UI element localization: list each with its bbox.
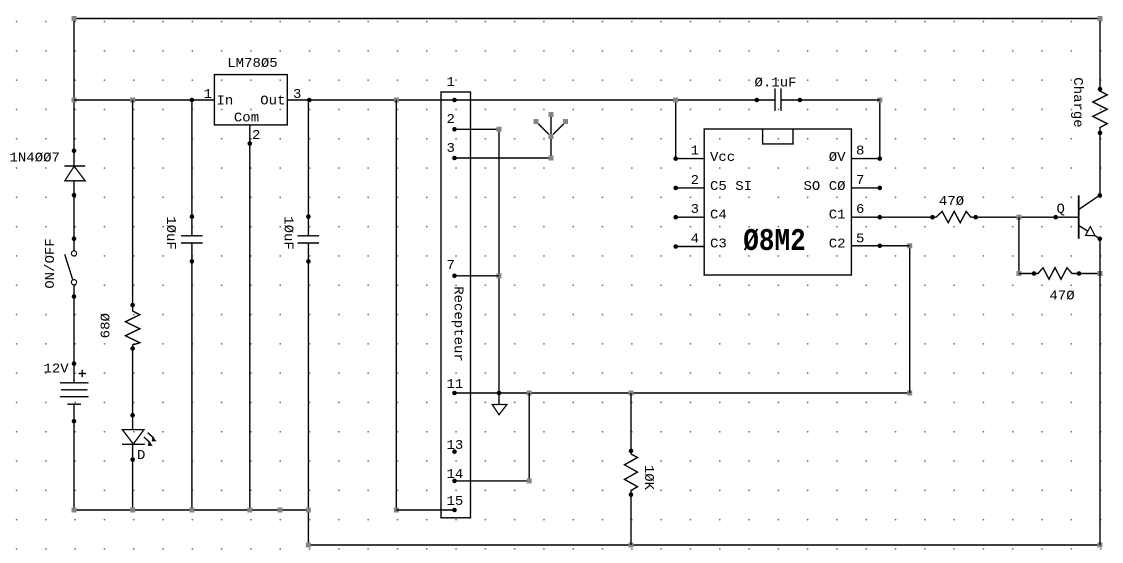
svg-text:4: 4 — [691, 232, 699, 248]
wire vertical 396 — [395, 100, 397, 510]
wire LM7805 com pin — [249, 125, 251, 510]
wire R2 to base — [976, 216, 1079, 218]
diode D1 1N4007 — [64, 149, 85, 198]
wire pin2 link — [455, 129, 500, 393]
chip pin 5 wire — [851, 245, 909, 247]
svg-text:C2: C2 — [829, 236, 846, 252]
pin 14 J1 — [452, 479, 457, 484]
transistor Q1 — [1079, 193, 1102, 241]
svg-text:6: 6 — [856, 202, 864, 218]
wire rail 5V from regulator — [287, 99, 775, 101]
wire 680 to LED — [132, 349, 134, 430]
node square 680 branch — [130, 98, 135, 103]
wire diode to switch — [73, 181, 75, 251]
svg-text:13: 13 — [447, 438, 464, 454]
svg-text:LM78Ø5: LM78Ø5 — [227, 56, 277, 72]
node rail2 right corner — [1098, 543, 1103, 548]
chip pin 4 stub — [676, 246, 705, 248]
pin 7 J1 — [452, 274, 457, 279]
node square left rail junction — [72, 98, 77, 103]
resistor R2 470 — [933, 211, 976, 222]
capacitor C2 10uF — [298, 214, 320, 263]
wire pin11 row — [455, 392, 910, 394]
battery B1 12V — [60, 361, 89, 423]
node pin2 corner — [497, 127, 502, 132]
arrow down — [498, 393, 500, 405]
wire battery to ground rail — [73, 404, 75, 510]
resistor R5 Charge — [1093, 91, 1107, 133]
svg-text:Ø8M2: Ø8M2 — [743, 224, 805, 260]
pin 2 J1 — [452, 127, 457, 132]
svg-text:3: 3 — [691, 202, 699, 218]
node Com-ground junction — [247, 508, 252, 513]
wire ground rail 2 — [308, 544, 1100, 546]
wire charge branch top — [1099, 19, 1101, 93]
wire rail 12V left segment — [74, 99, 214, 101]
svg-text:15: 15 — [447, 494, 464, 510]
svg-text:1ØK: 1ØK — [640, 465, 656, 491]
node C2-net corner — [907, 391, 912, 396]
svg-text:47Ø: 47Ø — [939, 194, 964, 210]
node pin14 corner — [527, 478, 532, 483]
regulator U2 LM7805 — [214, 75, 287, 125]
svg-text:7: 7 — [856, 173, 864, 189]
wire LED to ground rail — [132, 444, 134, 510]
wire emitter down — [1099, 239, 1101, 545]
svg-text:68Ø: 68Ø — [98, 313, 114, 338]
pin 13 J1 — [452, 449, 457, 454]
svg-text:2: 2 — [252, 128, 260, 144]
chip pin 1 wire — [676, 100, 705, 159]
svg-text:3: 3 — [447, 141, 455, 157]
wire 10K branch upper — [630, 393, 632, 454]
svg-text:Com: Com — [234, 111, 259, 127]
chip pin 6 wire — [851, 216, 932, 218]
switch S1 ON/OFF — [65, 236, 77, 298]
wire cap1 to ground — [191, 243, 193, 510]
node ground rail vertex — [278, 508, 283, 513]
capacitor C3 0.1uF — [755, 88, 803, 111]
node pin14-branch junction — [527, 391, 532, 396]
wire top rail — [74, 18, 1100, 20]
svg-text:2: 2 — [691, 173, 699, 189]
IC U1 08M2 — [704, 129, 851, 275]
wire pin7 stub — [455, 275, 500, 277]
svg-text:Q: Q — [1057, 202, 1065, 218]
svg-text:D: D — [137, 448, 145, 464]
wire pin15 stub — [396, 509, 454, 511]
svg-text:1: 1 — [204, 87, 212, 103]
node square 396 ground — [394, 508, 399, 513]
svg-text:C1: C1 — [829, 208, 846, 224]
svg-text:47Ø: 47Ø — [1049, 289, 1074, 305]
svg-text:2: 2 — [447, 112, 455, 128]
svg-text:8: 8 — [856, 144, 864, 160]
svg-text:SO CØ: SO CØ — [803, 179, 845, 195]
wire cap2 branch — [307, 100, 309, 236]
svg-text:1ØuF: 1ØuF — [279, 216, 295, 250]
wire base pulldown branch — [1018, 217, 1020, 273]
svg-text:ON/OFF: ON/OFF — [43, 238, 59, 288]
svg-text:1: 1 — [691, 144, 699, 160]
pin 3 J1 — [452, 156, 457, 161]
svg-text:ØV: ØV — [829, 150, 846, 166]
junction pin11 — [497, 391, 502, 396]
node pin7 junction — [497, 273, 502, 278]
svg-text:Out: Out — [260, 94, 285, 110]
svg-text:C3: C3 — [710, 236, 727, 252]
capacitor C1 10uF — [181, 214, 203, 263]
svg-text:C4: C4 — [710, 208, 727, 224]
antenna A1 — [534, 112, 569, 161]
wire charge to collector — [1099, 133, 1101, 196]
node LED-ground junction — [130, 508, 135, 513]
node C2-ground junction — [306, 508, 311, 513]
wire cap3 right to pin8 — [781, 99, 880, 101]
wire switch to battery — [73, 285, 75, 383]
svg-text:Vcc: Vcc — [710, 150, 735, 166]
node battery-ground junction — [72, 508, 77, 513]
wire C2 net vertical — [851, 246, 909, 393]
chip pin 8 wire — [851, 100, 879, 159]
node rail2 left end — [306, 543, 311, 548]
node C1-ground junction — [189, 508, 194, 513]
svg-text:In: In — [217, 94, 234, 110]
LED D — [122, 413, 157, 462]
svg-text:7: 7 — [447, 258, 455, 274]
chip pin 3 stub — [676, 216, 705, 218]
svg-text:Recepteur: Recepteur — [450, 286, 466, 362]
wire 680 branch upper — [132, 100, 134, 309]
resistor R1 680 — [125, 309, 139, 349]
svg-text:Ø.1uF: Ø.1uF — [755, 76, 797, 92]
pin 15 J1 — [452, 508, 457, 513]
connector J1 Recepteur — [441, 92, 471, 518]
svg-text:1ØuF: 1ØuF — [162, 216, 178, 250]
pin 1 J1 — [452, 98, 457, 103]
svg-text:1N4ØØ7: 1N4ØØ7 — [10, 151, 60, 167]
node 10K-rail2 junction — [629, 543, 634, 548]
wire pin3 to antenna — [455, 137, 552, 159]
wire cap1 branch — [191, 100, 193, 236]
chip pin 2 stub — [676, 187, 705, 189]
node 10K-top junction — [629, 391, 634, 396]
resistor R4 10K — [625, 454, 638, 495]
chip pin 7 stub — [851, 187, 879, 189]
svg-text:C5 SI: C5 SI — [710, 179, 752, 195]
label + — [79, 370, 87, 377]
svg-text:1: 1 — [447, 75, 455, 91]
pin 11 J1 — [452, 391, 457, 396]
wire cap2 to bottom rail — [307, 243, 309, 545]
ground rail 1 — [74, 509, 308, 511]
svg-text:Charge: Charge — [1069, 77, 1085, 127]
wire pin14 link — [455, 393, 530, 481]
node square 5V drop branch — [394, 98, 399, 103]
svg-text:12V: 12V — [44, 362, 70, 378]
wire left vertical upper — [73, 19, 75, 167]
wire 10K to ground — [630, 495, 632, 545]
svg-text:11: 11 — [447, 377, 464, 393]
resistor R3 470 — [1019, 268, 1100, 280]
node square top-left — [72, 16, 77, 21]
